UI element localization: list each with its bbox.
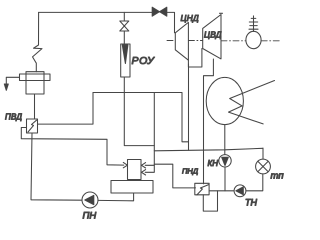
heater PND box [195, 183, 209, 195]
ROU apparatus box [121, 44, 130, 77]
wire crossover CND to CVD [188, 49, 202, 68]
wire deaerator steam feed [145, 93, 154, 173]
svg-text:ПН: ПН [83, 211, 97, 222]
boiler body [26, 72, 44, 94]
generator G [246, 31, 261, 48]
wire boiler blowdown left [6, 77, 19, 85]
svg-text:ЦВД: ЦВД [204, 30, 222, 40]
wire extraction to PVD [38, 93, 94, 125]
arrow drain into deaerator [123, 162, 127, 167]
wire valve to ROU [123, 31, 125, 44]
wire PVD drain to deaerator [21, 128, 124, 166]
turbine CVD [203, 15, 221, 59]
wire KN down [224, 167, 226, 191]
wire condensate condenser to KN [224, 125, 226, 155]
wire CVD exhaust duct to condenser [204, 59, 214, 86]
wire feedwater boiler to PVD [34, 94, 36, 119]
valve main stop valve [152, 7, 167, 16]
wire deaerator upper inlet [145, 164, 154, 166]
wire boiler riser zigzag [33, 12, 43, 71]
pump PN feed pump [82, 192, 98, 208]
pump KN condensate pump [219, 155, 231, 167]
consumer TP [256, 159, 271, 174]
wire extraction header upper [93, 93, 189, 142]
deaerator column [128, 160, 142, 180]
deaerator tank [111, 181, 153, 194]
boiler drum bar [20, 74, 51, 81]
svg-text:ПВД: ПВД [5, 113, 22, 122]
shaft line dash-dot [167, 40, 280, 42]
wire heat supply header [154, 148, 263, 151]
wire PND drain loop [203, 191, 217, 211]
heater PVD box [27, 119, 38, 133]
svg-text:ЦНД: ЦНД [181, 13, 199, 23]
condenser [206, 77, 243, 124]
heater PND coil [197, 185, 209, 195]
wire tick at CVD top corner [220, 12, 223, 14]
turbine CND [175, 22, 188, 60]
svg-text:ТН: ТН [245, 198, 257, 208]
excitation bars [251, 17, 256, 19]
wire PND steam line down [203, 86, 205, 184]
wire PND condensate to deaerator [154, 164, 195, 188]
wire TP steam feed [262, 148, 264, 159]
svg-text:РОУ: РОУ [132, 55, 156, 67]
svg-text:тп: тп [271, 171, 285, 182]
pump TN network pump [234, 185, 246, 197]
heater PVD coil [28, 120, 37, 132]
arrow blowdown down [4, 84, 8, 90]
arrow lower into column [142, 170, 146, 175]
circulating water zigzag [229, 81, 275, 124]
wire ROU outlet down [124, 77, 154, 146]
wire main steam line top [39, 11, 153, 13]
wire TN to TP return [246, 174, 263, 191]
wire condensate bottom run [210, 190, 234, 192]
arrow upper into column [142, 163, 146, 168]
ROU nozzle [122, 45, 128, 64]
wire CND extraction down [188, 64, 190, 150]
wire ROU branch from main line [123, 12, 125, 21]
svg-text:КН: КН [208, 159, 219, 168]
wire feedwater PVD down to pump [31, 133, 82, 200]
svg-text:ПНД: ПНД [182, 167, 199, 176]
wire main steam line after valve [167, 12, 175, 32]
wire pump PN to deaerator tank [98, 193, 134, 201]
valve ROU reducing valve [120, 21, 129, 31]
generator excitation stem [253, 16, 255, 31]
